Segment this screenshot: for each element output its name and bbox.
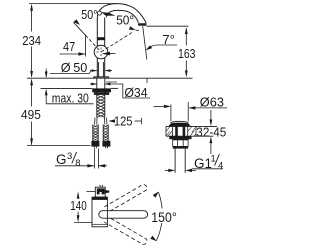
lever tilt arrow left bbox=[73, 19, 80, 25]
handle stub bbox=[92, 185, 109, 200]
outlet axis line bbox=[143, 26, 147, 60]
mounting nut under counter bbox=[92, 88, 111, 92]
hose tails bbox=[95, 118, 108, 125]
countertop main: bottom line bbox=[41, 87, 93, 89]
svg-text:Ø 50: Ø 50 bbox=[61, 60, 88, 75]
hose thread tips bbox=[94, 147, 107, 149]
dim 7 deg bbox=[146, 32, 177, 51]
drain counter hatched section bbox=[166, 126, 217, 136]
svg-text:7°: 7° bbox=[162, 32, 175, 47]
lever pointer bbox=[102, 52, 116, 56]
hose braided right bbox=[103, 125, 108, 141]
swivel arc 150 bbox=[150, 192, 162, 242]
drain nut bottom band bbox=[173, 146, 188, 148]
svg-text:G: G bbox=[56, 152, 67, 167]
dim 32-45 bbox=[210, 110, 213, 154]
svg-text:163: 163 bbox=[178, 46, 196, 61]
countertop right edge bbox=[146, 78, 148, 83]
threaded shank bbox=[97, 78, 105, 117]
spout outlet face bbox=[138, 23, 147, 26]
svg-text:125: 125 bbox=[114, 113, 133, 128]
svg-text:47: 47 bbox=[63, 39, 75, 54]
drain body through counter bbox=[173, 126, 188, 136]
flange shadow line bbox=[106, 81, 117, 83]
dim G3/8 bbox=[55, 149, 107, 170]
svg-text:150°: 150° bbox=[151, 210, 177, 225]
drain pipe bbox=[175, 149, 185, 173]
lever tilt arrow right bbox=[129, 26, 136, 30]
svg-text:32-45: 32-45 bbox=[196, 125, 226, 140]
hose connector left bbox=[91, 141, 99, 147]
dim 125 bbox=[108, 118, 141, 124]
svg-text:Ø63: Ø63 bbox=[200, 94, 224, 109]
spout joint band bbox=[98, 37, 105, 40]
dim 140 bbox=[74, 191, 95, 222]
dim 163 bbox=[147, 26, 193, 78]
dim 495 bbox=[27, 78, 91, 145]
drain hex nut bbox=[173, 139, 188, 146]
drain flange nut bbox=[169, 136, 191, 139]
faucet riser column bbox=[97, 18, 104, 77]
spout swivel dashed up bbox=[104, 185, 147, 211]
svg-text:8: 8 bbox=[75, 158, 80, 169]
lever tilt line left dashed part bbox=[86, 35, 102, 52]
dim D63 bbox=[154, 102, 228, 121]
dim G1 1/4 bbox=[165, 154, 223, 173]
svg-text:4: 4 bbox=[218, 161, 223, 172]
hose braided left bbox=[93, 125, 98, 141]
svg-text:1: 1 bbox=[211, 154, 216, 165]
dim max30 bbox=[45, 69, 94, 104]
svg-text:234: 234 bbox=[22, 33, 41, 48]
svg-text:140: 140 bbox=[70, 198, 87, 213]
dim D50 label bbox=[50, 60, 91, 75]
lever tilt line left solid part bbox=[74, 22, 86, 35]
body top view bbox=[92, 197, 107, 227]
svg-text:50°: 50° bbox=[81, 8, 97, 22]
svg-text:max. 30: max. 30 bbox=[52, 91, 89, 106]
dim 47 leader bbox=[60, 52, 86, 55]
lever ball bbox=[94, 45, 108, 59]
spout arc bbox=[97, 4, 146, 24]
svg-text:3: 3 bbox=[67, 151, 72, 162]
drain cap bbox=[168, 121, 190, 126]
lever pivot dot bbox=[97, 11, 101, 15]
dim 234 bbox=[29, 4, 116, 78]
hose connector right bbox=[102, 141, 110, 147]
spout swivel dashed down bbox=[104, 218, 147, 244]
dim D50 arrows at base bbox=[90, 69, 112, 72]
D34 underline bbox=[123, 97, 150, 99]
dim D34 arrows at shank bbox=[90, 83, 123, 98]
spout top view bbox=[99, 211, 148, 219]
base neck bbox=[99, 62, 104, 77]
base flange plate bbox=[94, 77, 109, 78]
lever tilt dashed line right bbox=[101, 32, 134, 52]
lever stick bbox=[101, 12, 115, 16]
svg-text:495: 495 bbox=[21, 107, 41, 122]
countertop main: top line bbox=[27, 77, 147, 79]
dim 150 text bbox=[151, 209, 179, 224]
dim 47 extension line bbox=[85, 35, 87, 57]
svg-text:50°: 50° bbox=[116, 14, 134, 28]
lever tilt arrow right tail bbox=[135, 29, 139, 32]
